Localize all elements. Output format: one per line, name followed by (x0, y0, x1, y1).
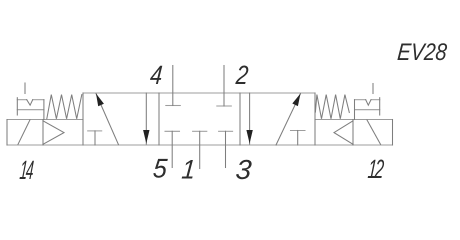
svg-text:14: 14 (19, 156, 35, 185)
svg-text:EV28: EV28 (396, 38, 448, 65)
svg-text:4: 4 (149, 61, 164, 90)
svg-text:1: 1 (180, 155, 196, 184)
svg-text:3: 3 (234, 154, 253, 185)
svg-text:5: 5 (152, 153, 169, 184)
svg-text:12: 12 (367, 154, 385, 184)
svg-text:2: 2 (234, 61, 250, 90)
